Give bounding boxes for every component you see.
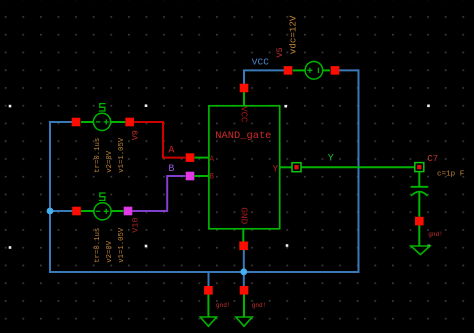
svg-text:B: B (209, 174, 214, 182)
svg-text:c=1p F: c=1p F (437, 170, 465, 178)
svg-text:GND: GND (238, 207, 249, 224)
svg-text:tr=0.1us: tr=0.1us (94, 228, 102, 263)
svg-text:gnd!: gnd! (252, 302, 267, 309)
svg-text:V9: V9 (131, 130, 141, 140)
svg-text:vdc=12V: vdc=12V (287, 15, 298, 54)
svg-text:C7: C7 (427, 154, 438, 164)
svg-text:A: A (209, 156, 214, 164)
svg-text:v1=1.05V: v1=1.05V (118, 227, 126, 263)
svg-text:V5: V5 (275, 47, 285, 57)
svg-text:v1=1.05V: v1=1.05V (118, 137, 126, 173)
svg-text:VCC: VCC (238, 106, 248, 123)
svg-text:gnd!: gnd! (216, 302, 231, 309)
svg-text:VCC: VCC (252, 56, 269, 67)
svg-text:v2=0V: v2=0V (106, 240, 114, 263)
svg-text:Y: Y (328, 153, 334, 164)
svg-text:Y: Y (272, 165, 278, 176)
svg-text:NAND_gate: NAND_gate (215, 130, 271, 142)
svg-text:A: A (168, 146, 174, 157)
svg-text:tr=0.1us: tr=0.1us (94, 138, 102, 173)
svg-text:V10: V10 (131, 217, 141, 232)
svg-text:B: B (168, 164, 174, 175)
svg-text:v2=0V: v2=0V (106, 150, 114, 173)
svg-text:gnd!: gnd! (428, 231, 443, 238)
